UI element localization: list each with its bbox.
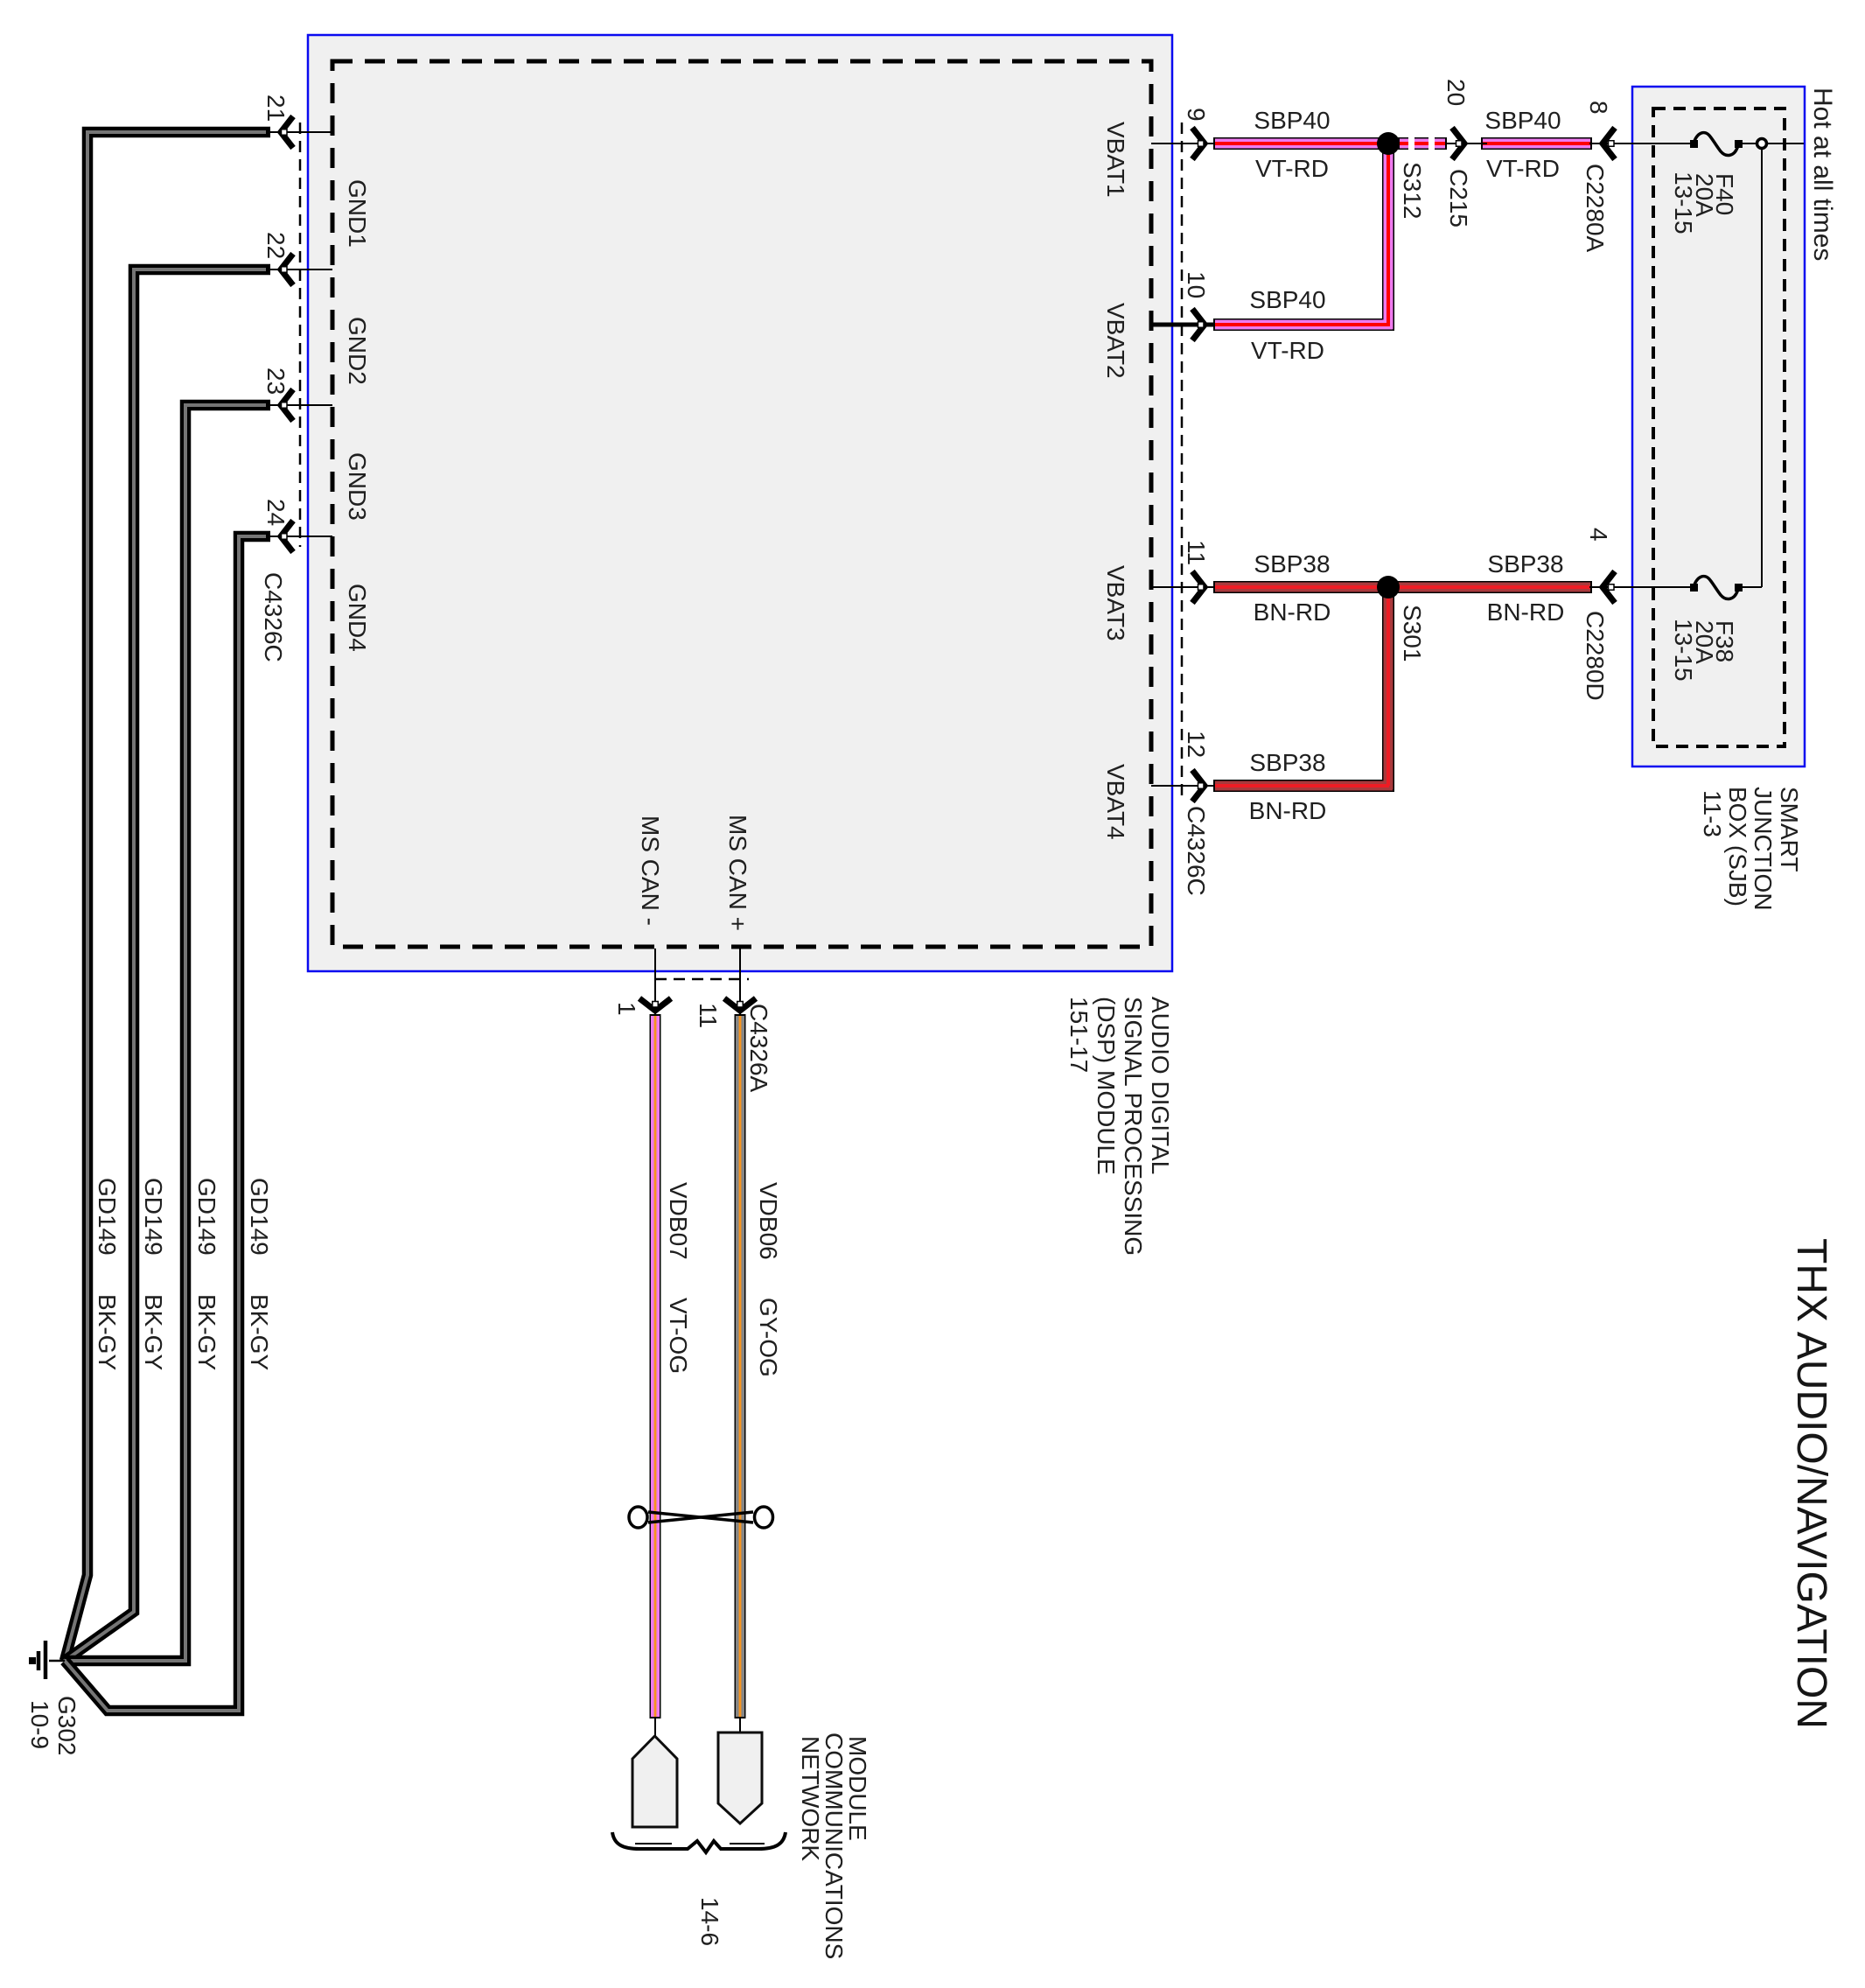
svg-text:C2280D: C2280D xyxy=(1582,611,1609,701)
svg-text:23: 23 xyxy=(262,367,290,395)
svg-text:22: 22 xyxy=(262,232,290,259)
svg-text:BK-GY: BK-GY xyxy=(94,1294,121,1370)
terminal 1 (MS CAN -) xyxy=(632,1736,677,1827)
wire GD149 BK-GY from GND4 pin 24 to G302 xyxy=(65,536,270,1711)
pin 12 VBAT4 stub and arrow xyxy=(1151,770,1216,801)
connector C4326C dashed line (GND side) xyxy=(299,122,302,547)
svg-text:VBAT2: VBAT2 xyxy=(1102,303,1129,379)
fuse F38 20A xyxy=(1690,577,1743,599)
box SJB inner dashed outline xyxy=(1653,108,1785,746)
svg-text:C215: C215 xyxy=(1445,169,1472,227)
label SMART JUNCTION BOX (SJB) 11-3 xyxy=(1699,787,1803,911)
twisted pair symbol xyxy=(629,1507,773,1528)
wire SBP40 VT-RD pin9 to S312 xyxy=(1213,137,1396,150)
svg-text:C2280A: C2280A xyxy=(1582,164,1609,253)
node on supply bus xyxy=(1757,139,1767,149)
svg-text:GD149: GD149 xyxy=(140,1178,167,1256)
svg-text:SIGNAL PROCESSING: SIGNAL PROCESSING xyxy=(1120,997,1147,1256)
pin 1 MS CAN - stub and arrow xyxy=(639,948,671,1015)
pin 10 VBAT2 stub and arrow xyxy=(1151,309,1216,340)
svg-text:VDB06: VDB06 xyxy=(755,1182,782,1260)
wire GD149 BK-GY from GND3 pin 23 to G302 xyxy=(65,405,270,1661)
svg-text:S301: S301 xyxy=(1399,605,1426,661)
svg-text:9: 9 xyxy=(1183,108,1210,122)
svg-text:4: 4 xyxy=(1585,528,1612,542)
svg-text:SBP38: SBP38 xyxy=(1254,550,1330,577)
wire VDB06 GY-OG MS CAN + xyxy=(735,1014,746,1718)
label MODULE COMMUNICATIONS NETWORK xyxy=(797,1732,871,1959)
svg-text:GND2: GND2 xyxy=(344,317,371,385)
wire SBP40 VT-RD S312 to C215 xyxy=(1398,136,1447,150)
svg-text:SBP40: SBP40 xyxy=(1484,107,1561,134)
pin 21 GND1 stub and arrow xyxy=(268,116,332,148)
connector C215 arrow xyxy=(1445,128,1487,159)
svg-text:GD149: GD149 xyxy=(193,1178,220,1256)
svg-text:24: 24 xyxy=(262,499,290,526)
svg-text:BN-RD: BN-RD xyxy=(1487,598,1565,626)
svg-text:SBP38: SBP38 xyxy=(1249,749,1325,776)
pin 22 GND2 stub and arrow xyxy=(268,254,332,285)
svg-text:C4326C: C4326C xyxy=(260,572,287,662)
svg-text:VBAT4: VBAT4 xyxy=(1102,764,1129,840)
ground G302 symbol xyxy=(29,1641,65,1679)
svg-text:VT-RD: VT-RD xyxy=(1255,155,1329,182)
svg-text:10-9: 10-9 xyxy=(26,1700,53,1749)
svg-text:VT-RD: VT-RD xyxy=(1251,337,1324,364)
svg-text:C4326C: C4326C xyxy=(1183,806,1210,896)
svg-text:13-15: 13-15 xyxy=(1670,171,1697,234)
svg-text:MS CAN -: MS CAN - xyxy=(637,815,664,926)
svg-text:11-3: 11-3 xyxy=(1699,790,1726,837)
wire lead into terminal 1 xyxy=(654,1717,656,1738)
svg-text:BK-GY: BK-GY xyxy=(140,1294,167,1370)
svg-text:MS CAN +: MS CAN + xyxy=(724,815,751,931)
svg-text:C4326A: C4326A xyxy=(745,1004,772,1093)
svg-text:20: 20 xyxy=(1442,79,1470,106)
svg-text:11: 11 xyxy=(1183,540,1210,565)
pin 23 GND3 stub and arrow xyxy=(268,389,332,421)
SJB pin 8 stub and arrow xyxy=(1589,128,1694,159)
svg-text:NETWORK: NETWORK xyxy=(797,1736,824,1861)
svg-text:S312: S312 xyxy=(1399,162,1426,219)
wire from bus to fuse F38 xyxy=(1740,586,1762,588)
svg-text:10: 10 xyxy=(1183,271,1210,298)
svg-text:151-17: 151-17 xyxy=(1065,997,1093,1073)
svg-text:BN-RD: BN-RD xyxy=(1249,797,1327,824)
svg-text:8: 8 xyxy=(1585,101,1612,115)
svg-text:GND4: GND4 xyxy=(344,584,371,652)
junction S301 xyxy=(1377,576,1400,598)
connector C4326A dashed line (MS CAN side) xyxy=(655,978,749,981)
svg-text:AUDIO DIGITAL: AUDIO DIGITAL xyxy=(1147,997,1174,1174)
svg-text:VBAT1: VBAT1 xyxy=(1102,122,1129,198)
svg-text:GY-OG: GY-OG xyxy=(755,1298,782,1377)
svg-text:GD149: GD149 xyxy=(94,1178,121,1256)
wire GD149 BK-GY from GND2 pin 22 to G302 xyxy=(65,269,270,1661)
wire lead into terminal 2 xyxy=(739,1717,741,1734)
svg-text:VBAT3: VBAT3 xyxy=(1102,565,1129,641)
svg-text:Hot at all times: Hot at all times xyxy=(1808,87,1837,261)
pin 9 VBAT1 stub and arrow xyxy=(1151,128,1216,159)
terminal 2 (MS CAN +) xyxy=(718,1732,762,1823)
connector C4326C dashed line (VBAT side) xyxy=(1181,122,1184,798)
SJB pin 4 stub and arrow xyxy=(1589,571,1694,603)
wire VDB07 VT-OG MS CAN - xyxy=(650,1014,661,1718)
svg-text:BK-GY: BK-GY xyxy=(193,1294,220,1370)
svg-text:GND3: GND3 xyxy=(344,452,371,521)
wire SBP38 BN-RD pin11 to SJB pin 4 through S301 xyxy=(1213,581,1592,593)
svg-text:BOX (SJB): BOX (SJB) xyxy=(1724,787,1751,906)
label AUDIO DIGITAL SIGNAL PROCESSING (DSP) MODULE 151-17 xyxy=(1065,997,1174,1256)
svg-text:1: 1 xyxy=(613,1002,640,1016)
svg-text:12: 12 xyxy=(1183,731,1210,758)
svg-text:BN-RD: BN-RD xyxy=(1254,598,1331,626)
wire GD149 BK-GY from GND1 pin 21 to G302 xyxy=(65,132,270,1661)
fuse F40 20A xyxy=(1690,133,1743,156)
fuse F40 label xyxy=(1670,171,1738,234)
svg-text:11: 11 xyxy=(695,1003,722,1028)
module U1 inner dashed outline xyxy=(332,61,1151,947)
wire hot feed from fuse F40 to supply node xyxy=(1740,143,1804,144)
wire supply bus vertical xyxy=(1761,143,1763,587)
svg-text:JUNCTION: JUNCTION xyxy=(1750,787,1777,911)
pin 24 GND4 stub and arrow xyxy=(268,521,332,552)
svg-text:21: 21 xyxy=(262,94,290,122)
junction S312 xyxy=(1377,132,1400,155)
svg-text:THX AUDIO/NAVIGATION: THX AUDIO/NAVIGATION xyxy=(1788,1238,1834,1729)
pin 11 VBAT3 stub and arrow xyxy=(1151,571,1216,603)
svg-text:SBP40: SBP40 xyxy=(1249,286,1325,313)
svg-text:SMART: SMART xyxy=(1776,787,1803,872)
wire SBP40 VT-RD S312 branch to VBAT2 pin 10 xyxy=(1213,143,1394,331)
svg-text:GD149: GD149 xyxy=(246,1178,273,1256)
svg-text:(DSP) MODULE: (DSP) MODULE xyxy=(1093,997,1120,1175)
pin 11 MS CAN + stub and arrow xyxy=(724,948,756,1015)
svg-text:BK-GY: BK-GY xyxy=(246,1294,273,1370)
svg-text:13-15: 13-15 xyxy=(1670,619,1697,682)
box SJB: SMART JUNCTION BOX xyxy=(1632,87,1805,766)
module U1: AUDIO DIGITAL SIGNAL PROCESSING (DSP) MODULE box xyxy=(308,35,1172,971)
svg-text:SBP40: SBP40 xyxy=(1254,107,1330,134)
wire SBP40 VT-RD C215 to SJB pin 8 xyxy=(1481,137,1592,150)
svg-text:VT-OG: VT-OG xyxy=(665,1298,692,1374)
continuation brace 14-6 xyxy=(612,1832,786,1852)
svg-text:SBP38: SBP38 xyxy=(1487,550,1563,577)
svg-text:G302: G302 xyxy=(53,1696,80,1756)
svg-text:VDB07: VDB07 xyxy=(665,1182,692,1260)
svg-text:14-6: 14-6 xyxy=(696,1897,723,1946)
wire SBP38 BN-RD S301 branch to VBAT4 pin 12 xyxy=(1213,587,1394,792)
fuse F38 label xyxy=(1670,619,1738,682)
svg-text:VT-RD: VT-RD xyxy=(1486,155,1560,182)
svg-text:GND1: GND1 xyxy=(344,179,371,248)
